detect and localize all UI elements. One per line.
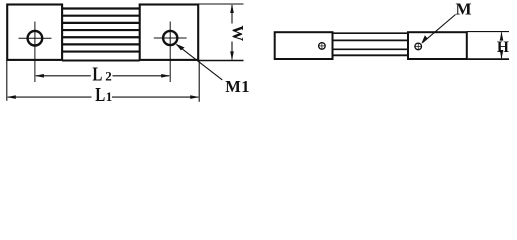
dimension L1 [7,95,199,99]
left mounting hole [28,31,43,46]
svg-text:2: 2 [105,69,112,84]
leader line M1 [176,44,223,80]
resistive strips (front view bars) [62,9,140,61]
front view: right terminal block [140,5,199,60]
front view: left terminal block [7,5,62,60]
W extension lines [198,4,243,61]
W dimension line with arrows [230,4,234,60]
right screw symbol [414,43,422,51]
side view: left block [275,32,333,59]
right hole centerlines [154,22,187,83]
H dimension line with arrows [500,32,504,59]
leader line M [421,15,455,44]
svg-text:H: H [497,39,509,56]
left hole centerlines [19,22,52,83]
right extension line [198,61,200,102]
svg-text:M1: M1 [225,77,250,96]
H extension lines [467,32,509,59]
left extension line [6,61,8,101]
svg-text:L: L [92,64,102,86]
side view strips [333,33,409,55]
side view: right block [408,32,467,59]
right mounting hole [163,31,177,45]
svg-text:1: 1 [106,89,113,104]
svg-text:W: W [228,25,245,41]
svg-text:M: M [456,0,472,19]
svg-text:L: L [95,84,105,106]
dimension L2 [35,74,170,78]
left screw symbol [318,42,326,50]
